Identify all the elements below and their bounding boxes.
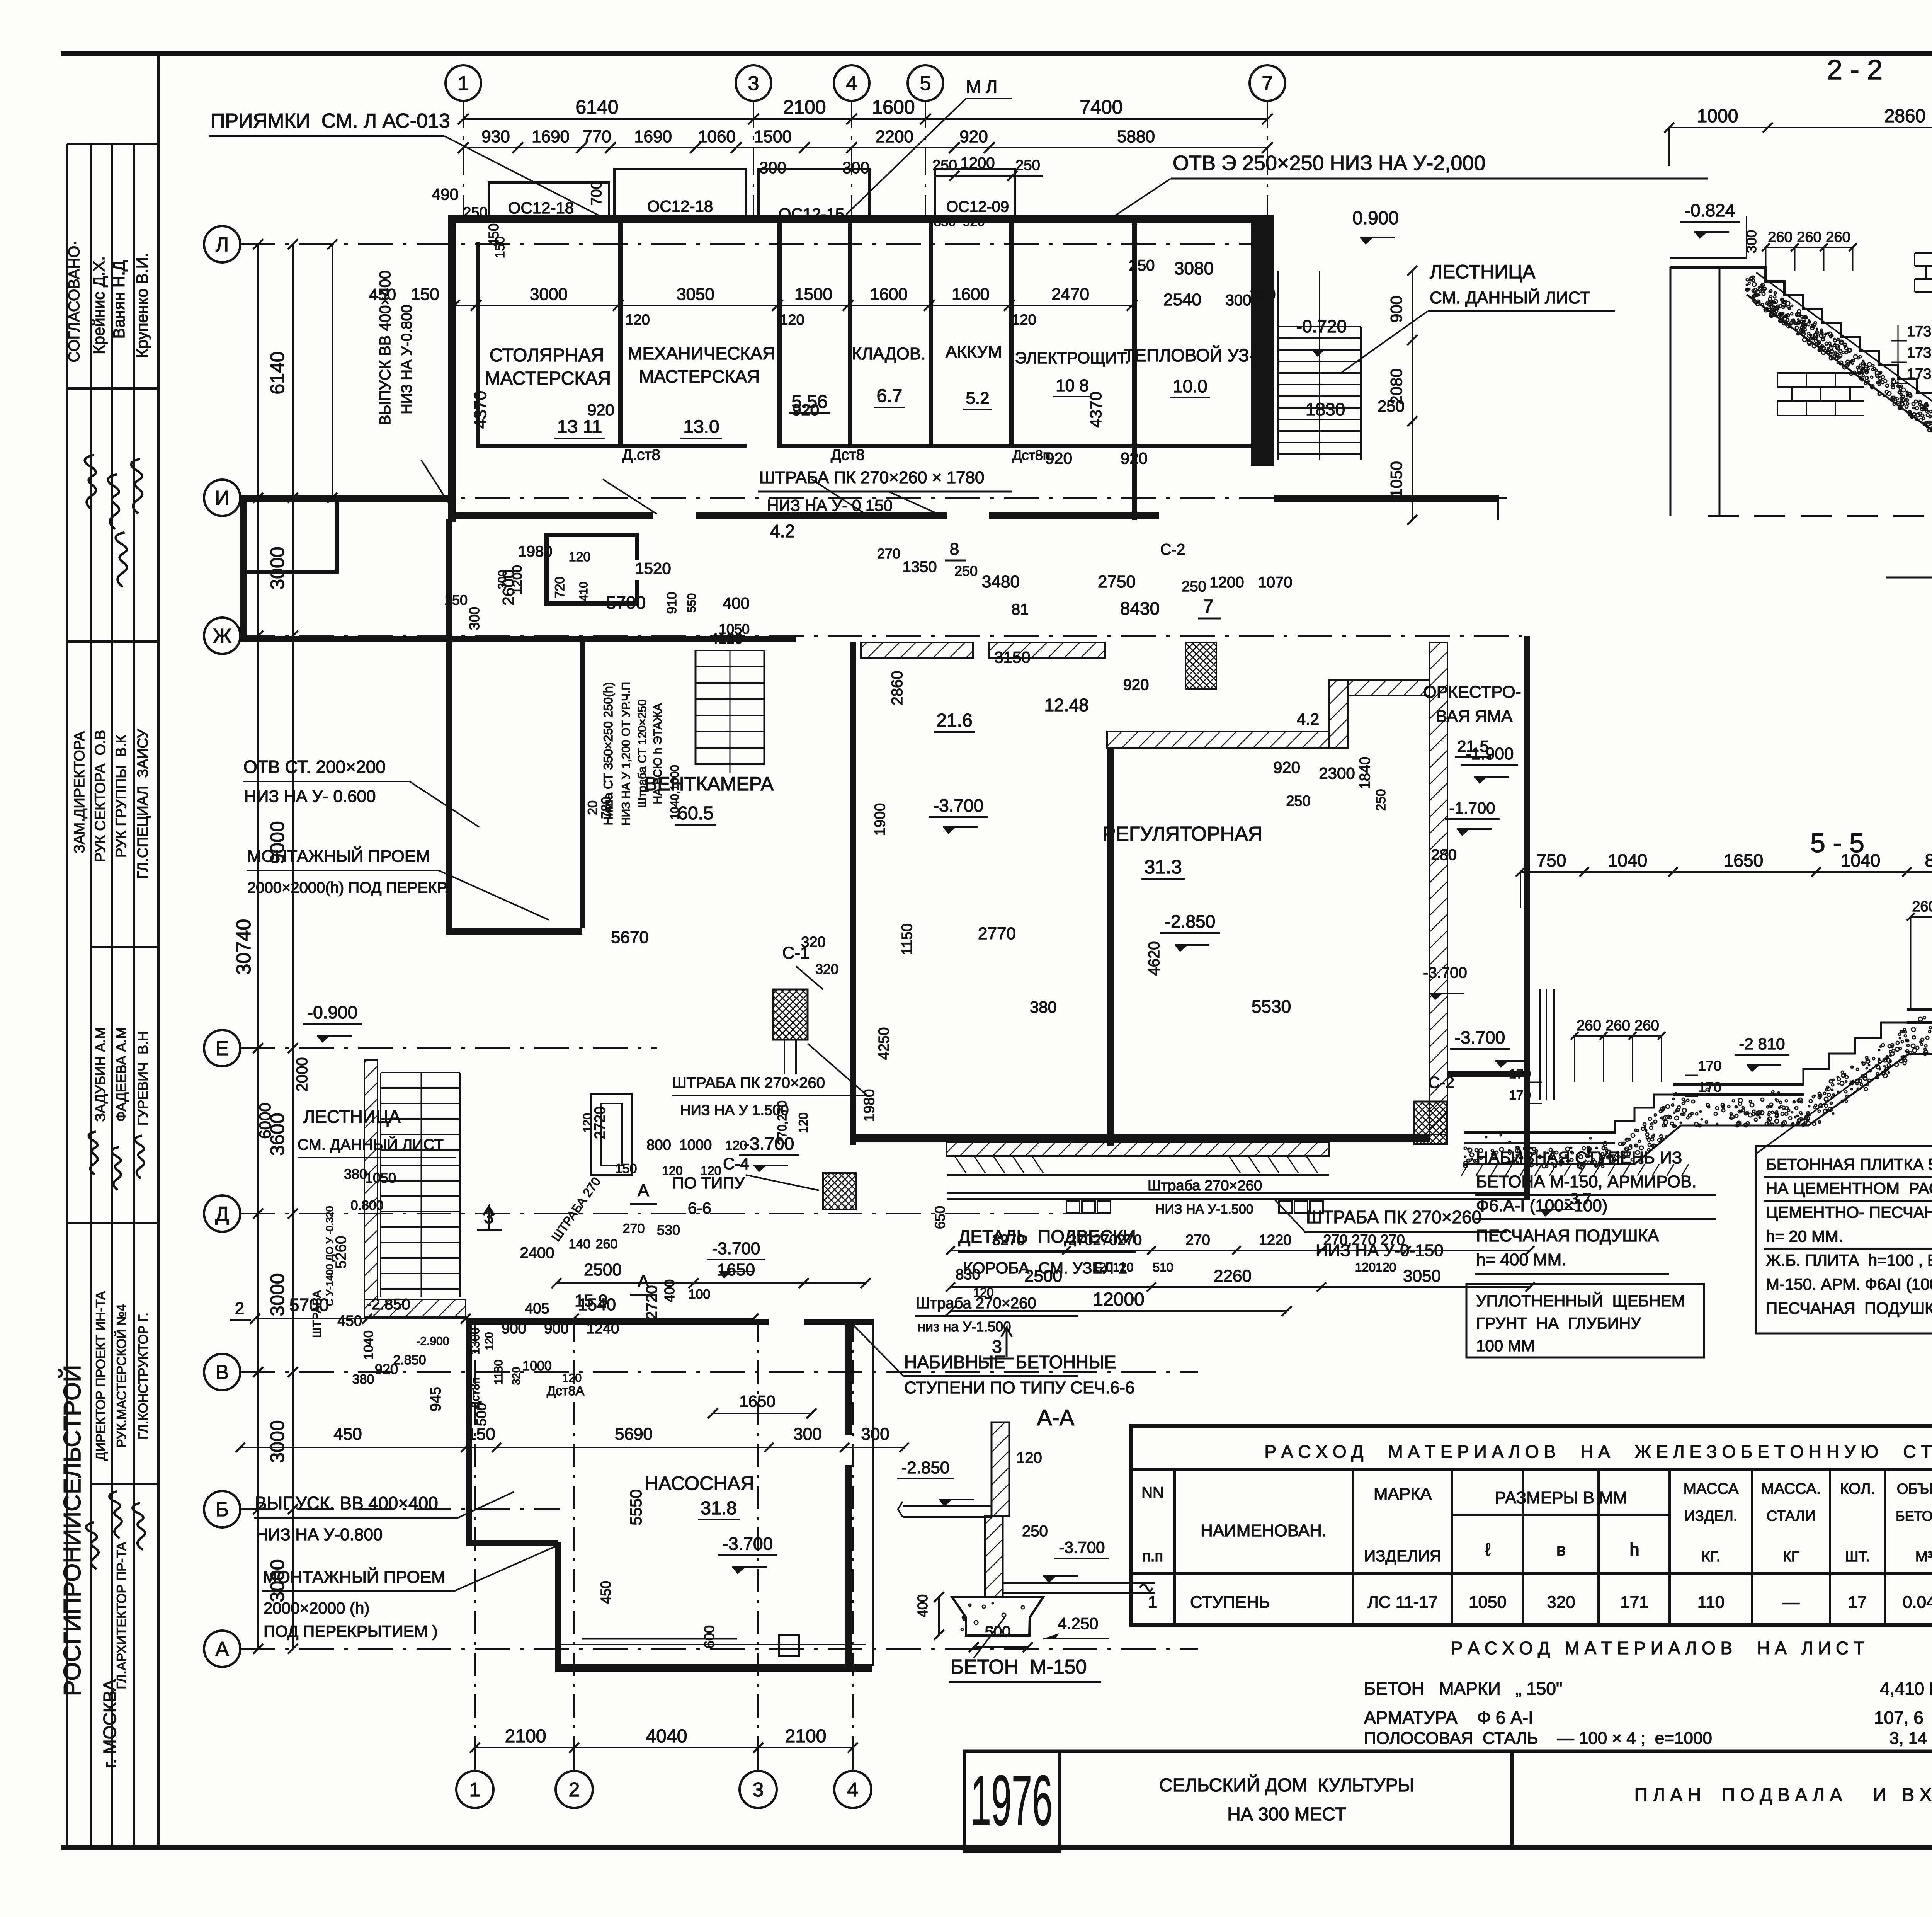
svg-text:В: В: [216, 1361, 229, 1384]
svg-text:2080: 2080: [1387, 368, 1405, 404]
stair top right treads: [1278, 326, 1361, 327]
stamp signatures lower: [83, 1522, 101, 1569]
plan outer top wall: [448, 215, 1273, 223]
axis circle 5 top: [908, 65, 943, 101]
svg-text:НАБИВНЫЕ БЕТОННЫЕ: НАБИВНЫЕ БЕТОННЫЕ: [904, 1352, 1116, 1372]
А-А left slab: [903, 1505, 992, 1507]
svg-text:Ванян Н.Д: Ванян Н.Д: [110, 260, 128, 339]
svg-text:120: 120: [1016, 1449, 1042, 1466]
svg-text:270: 270: [877, 546, 900, 562]
axis line 3 top: [753, 101, 754, 216]
svg-text:1690: 1690: [634, 127, 672, 146]
svg-text:1500: 1500: [794, 285, 832, 304]
axis line Е: [240, 1047, 657, 1049]
axis circle Л: [204, 226, 240, 262]
lower-left staircase treads: [381, 1072, 460, 1073]
svg-text:БЕТОН МАРКИ „ 150": БЕТОН МАРКИ „ 150": [1364, 1679, 1562, 1699]
svg-text:10.0: 10.0: [1173, 376, 1207, 396]
stamp right boundary full height: [157, 51, 160, 1847]
svg-text:2.850: 2.850: [393, 1353, 426, 1367]
svg-text:150: 150: [411, 285, 439, 304]
axis circle Б: [204, 1491, 240, 1527]
svg-text:КГ.: КГ.: [1702, 1549, 1721, 1565]
materials table outer border: [1131, 1426, 1932, 1625]
svg-text:920: 920: [587, 401, 614, 419]
svg-text:4.2: 4.2: [770, 521, 795, 541]
svg-text:1200: 1200: [1210, 574, 1244, 591]
svg-text:250: 250: [1286, 793, 1310, 809]
svg-text:МАССА.: МАССА.: [1761, 1480, 1821, 1497]
svg-text:300: 300: [861, 1425, 889, 1444]
svg-text:НИЗ НА У-0.800: НИЗ НА У-0.800: [399, 305, 415, 414]
2-2 brick patch lower: [1777, 372, 1864, 374]
svg-text:2100: 2100: [785, 1726, 827, 1747]
svg-text:120: 120: [569, 550, 591, 564]
svg-text:1040,1000: 1040,1000: [668, 765, 681, 820]
svg-text:М Л: М Л: [966, 77, 997, 97]
2-2 ground line: [1886, 577, 1932, 579]
svg-text:Дст8А: Дст8А: [547, 1384, 585, 1398]
svg-text:низ на У-1.500: низ на У-1.500: [918, 1319, 1011, 1335]
svg-text:280: 280: [1431, 846, 1457, 863]
axis circle 1 top: [446, 65, 481, 101]
svg-text:1600: 1600: [952, 285, 990, 304]
svg-text:А-А: А-А: [1037, 1405, 1075, 1430]
window well 1 outline: [489, 182, 609, 216]
stamp separator lines: [67, 387, 158, 390]
5-5 middle landing: [1673, 1083, 1804, 1086]
svg-text:2750: 2750: [1098, 572, 1136, 591]
title block cell borders: [1058, 1751, 1061, 1847]
5-5 dims 260 260 260 mid: [1575, 1035, 1662, 1037]
svg-text:П Л А Н П О Д В А Л А: П Л А Н П О Д В А Л А И В Х О Д Ы В П О …: [1634, 1785, 1932, 1805]
stair arrow line: [1319, 271, 1320, 460]
svg-text:Е: Е: [216, 1037, 229, 1060]
svg-text:3, 14 КГ.: 3, 14 КГ.: [1889, 1729, 1932, 1748]
svg-text:МАСТЕРСКАЯ: МАСТЕРСКАЯ: [485, 368, 611, 389]
svg-text:ПРИЯМКИ СМ. Л АС-013: ПРИЯМКИ СМ. Л АС-013: [211, 110, 450, 132]
C-shaped partition in left wing: [544, 533, 549, 606]
5-5 ground outline: [1464, 1054, 1932, 1164]
svg-text:800: 800: [1925, 850, 1932, 870]
svg-text:С-4: С-4: [723, 1154, 749, 1173]
svg-text:4.250: 4.250: [1058, 1614, 1098, 1633]
svg-text:1060: 1060: [698, 127, 736, 146]
svg-text:ОС12-18: ОС12-18: [508, 199, 574, 217]
svg-text:МАСТЕРСКАЯ: МАСТЕРСКАЯ: [639, 366, 760, 386]
svg-text:120: 120: [796, 1112, 810, 1133]
svg-text:НИЗ НА У-1.500: НИЗ НА У-1.500: [1155, 1202, 1253, 1217]
svg-text:СЕЛЬСКИЙ ДОМ КУЛЬТУРЫ: СЕЛЬСКИЙ ДОМ КУЛЬТУРЫ: [1159, 1774, 1414, 1796]
svg-text:770: 770: [583, 127, 611, 146]
svg-text:3: 3: [748, 72, 759, 95]
top dimension row 2: [463, 147, 1267, 148]
svg-text:4620: 4620: [1146, 941, 1163, 976]
svg-text:300: 300: [793, 1425, 821, 1444]
svg-text:320: 320: [815, 961, 838, 977]
svg-text:1: 1: [458, 72, 469, 95]
interior vertical dim line: [332, 244, 333, 498]
top dimension row 1: [463, 118, 1267, 120]
5-5 upper steps: [1803, 1023, 1907, 1084]
svg-text:81: 81: [1012, 601, 1029, 618]
svg-text:120120: 120120: [1355, 1260, 1396, 1274]
Ж axis long wall: [240, 636, 796, 642]
svg-text:1200: 1200: [510, 565, 525, 594]
svg-text:1976: 1976: [971, 1761, 1053, 1840]
svg-text:-3.700: -3.700: [723, 1534, 773, 1554]
svg-text:-1.700: -1.700: [1449, 799, 1495, 817]
axis stubs from plan to dim row: [474, 1319, 476, 1748]
svg-text:ГРУНТ НА ГЛУБИНУ: ГРУНТ НА ГЛУБИНУ: [1476, 1314, 1641, 1332]
svg-text:1040: 1040: [1841, 850, 1880, 870]
svg-text:С-2: С-2: [1160, 541, 1185, 558]
svg-text:Дст8п: Дст8п: [1012, 447, 1050, 463]
small rect дверь: [591, 1094, 632, 1175]
svg-text:170: 170: [1698, 1079, 1721, 1095]
svg-text:120: 120: [701, 1164, 721, 1178]
svg-text:260: 260: [1768, 229, 1792, 245]
svg-text:380: 380: [344, 1166, 367, 1182]
svg-text:300: 300: [466, 607, 482, 630]
svg-text:250: 250: [1182, 579, 1206, 595]
svg-text:2400: 2400: [520, 1245, 554, 1262]
svg-text:НИЗ НА У-0-150: НИЗ НА У-0-150: [1316, 1241, 1444, 1260]
svg-text:СОГЛАСОВАНО·: СОГЛАСОВАНО·: [66, 240, 83, 362]
А-А lower hatched wall: [985, 1516, 1003, 1597]
svg-text:НИЗ НА У 1,200 ОТ УР.Ч.П: НИЗ НА У 1,200 ОТ УР.Ч.П: [620, 682, 633, 826]
svg-text:СТУПЕНЬ: СТУПЕНЬ: [1190, 1593, 1270, 1612]
svg-text:5530: 5530: [1252, 996, 1291, 1016]
И axis left wing walls: [240, 495, 247, 642]
svg-text:АРМАТУРА Ф 6 А-I: АРМАТУРА Ф 6 А-I: [1364, 1708, 1533, 1728]
svg-text:2300: 2300: [1319, 764, 1355, 782]
svg-text:-2.850: -2.850: [1165, 911, 1215, 931]
svg-text:5700: 5700: [606, 592, 646, 613]
svg-text:1050: 1050: [1469, 1593, 1507, 1612]
svg-text:4040: 4040: [646, 1726, 687, 1747]
svg-text:3000: 3000: [530, 285, 568, 304]
svg-text:173: 173: [1907, 366, 1931, 382]
svg-text:ИЗДЕЛ.: ИЗДЕЛ.: [1685, 1508, 1738, 1524]
axis line 5 top: [925, 101, 926, 216]
svg-text:ПОД ПЕРЕКРЫТИЕМ ): ПОД ПЕРЕКРЫТИЕМ ): [264, 1622, 437, 1640]
Насосная left wall lower: [555, 1542, 561, 1672]
svg-text:КОРОБА СМ. УЗЕЛ 1: КОРОБА СМ. УЗЕЛ 1: [963, 1259, 1127, 1277]
svg-text:1050: 1050: [719, 621, 750, 637]
svg-text:МЕХАНИЧЕСКАЯ: МЕХАНИЧЕСКАЯ: [628, 343, 775, 363]
svg-text:270: 270: [1185, 1232, 1210, 1248]
stamp column vertical rules: [66, 144, 68, 1847]
dimension row inside top wing: [454, 305, 1132, 306]
svg-text:3000: 3000: [267, 546, 288, 589]
размеры subcolumns: [1522, 1515, 1524, 1625]
svg-text:500: 500: [473, 1403, 489, 1426]
svg-text:4250: 4250: [876, 1027, 892, 1060]
svg-text:12.48: 12.48: [1044, 695, 1088, 715]
svg-text:СТУПЕНИ ПО ТИПУ СЕЧ.6-6: СТУПЕНИ ПО ТИПУ СЕЧ.6-6: [904, 1378, 1134, 1397]
text block Уплотненный щебнем — boxed: [1466, 1284, 1704, 1357]
svg-text:5: 5: [920, 72, 931, 95]
axis circle И: [204, 480, 240, 516]
dim 1650 short: [713, 1413, 811, 1414]
axis circle 4 top: [834, 65, 869, 101]
bottom strip below регуляторная: [947, 1174, 1329, 1176]
svg-text:2260: 2260: [1214, 1267, 1252, 1285]
svg-text:1520: 1520: [635, 559, 671, 577]
svg-text:2720: 2720: [643, 1285, 660, 1320]
svg-text:405: 405: [525, 1301, 549, 1317]
svg-text:СТАЛИ: СТАЛИ: [1767, 1508, 1816, 1524]
2-2 left wall verticals: [1719, 267, 1721, 516]
axis line Л: [240, 243, 1275, 245]
svg-text:БЕТОННАЯ ПЛИТКА 500×300×140: БЕТОННАЯ ПЛИТКА 500×300×140: [1766, 1155, 1932, 1173]
svg-text:120: 120: [662, 1164, 682, 1178]
svg-text:1070: 1070: [1258, 574, 1293, 591]
svg-text:3480: 3480: [982, 572, 1020, 591]
А-А upper hatched wall: [992, 1422, 1009, 1516]
svg-text:Крупенко В.И.: Крупенко В.И.: [133, 252, 151, 358]
svg-text:А: А: [216, 1638, 229, 1660]
svg-text:550: 550: [685, 593, 698, 613]
axis line 7 top: [1267, 101, 1268, 216]
svg-text:510: 510: [1153, 1260, 1173, 1274]
right vertical dim chain of stair: [1412, 271, 1413, 520]
svg-text:ЛЕСТНИЦА: ЛЕСТНИЦА: [1430, 261, 1536, 283]
sheet outer frame bottom border: [61, 1845, 1932, 1850]
svg-text:920: 920: [792, 401, 819, 419]
dim 12000: [951, 1310, 1287, 1312]
svg-text:5260: 5260: [333, 1236, 349, 1269]
svg-text:30740: 30740: [233, 919, 255, 975]
svg-text:100 ММ: 100 ММ: [1476, 1336, 1535, 1355]
svg-text:2000×2000 (h): 2000×2000 (h): [264, 1599, 369, 1617]
inner wall lines workshop: [476, 242, 480, 447]
axis circle А: [204, 1631, 240, 1667]
svg-text:-0.720: -0.720: [1296, 316, 1347, 336]
svg-text:Крейнис Д.Х.: Крейнис Д.Х.: [90, 256, 108, 354]
axis circle Е: [204, 1030, 240, 1066]
svg-text:300: 300: [1226, 292, 1252, 309]
svg-text:2540: 2540: [1163, 290, 1201, 309]
svg-text:7: 7: [1262, 72, 1273, 95]
svg-text:270: 270: [623, 1221, 645, 1236]
svg-text:12000: 12000: [1093, 1289, 1144, 1310]
svg-text:3000: 3000: [267, 1420, 288, 1463]
svg-text:ОС12-18: ОС12-18: [647, 197, 713, 215]
svg-text:Дст8: Дст8: [831, 446, 865, 463]
svg-text:Ж.Б. ПЛИТА h=100 , БЕТОН: Ж.Б. ПЛИТА h=100 , БЕТОН: [1766, 1251, 1932, 1269]
text block Бетонная плитка — boxed: [1756, 1146, 1932, 1333]
svg-text:НА ЦЕМЕНТНОМ РАСТВОРЕ.: НА ЦЕМЕНТНОМ РАСТВОРЕ.: [1766, 1179, 1932, 1197]
axis line 1 top: [463, 101, 464, 216]
svg-text:5550: 5550: [627, 1489, 645, 1525]
vertical wall вентамера left: [580, 642, 585, 928]
svg-text:ГУРЕВИЧ В.Н: ГУРЕВИЧ В.Н: [135, 1031, 151, 1125]
heavy hatched wall right: [1430, 642, 1447, 1134]
svg-text:400: 400: [915, 1594, 930, 1617]
svg-text:5.2: 5.2: [966, 389, 989, 408]
axis line Ж: [240, 635, 1530, 637]
leader slashes for doors: [603, 479, 657, 514]
svg-text:ЗАМ.ДИРЕКТОРА: ЗАМ.ДИРЕКТОРА: [71, 731, 88, 853]
svg-text:1650: 1650: [1724, 850, 1763, 870]
2-2 stair underside: [1747, 295, 1932, 461]
svg-text:1600: 1600: [872, 96, 915, 118]
svg-text:4370: 4370: [471, 391, 490, 429]
svg-text:10 8: 10 8: [1056, 376, 1089, 395]
svg-text:15 9: 15 9: [575, 1291, 608, 1310]
регуляторная room walls: [1107, 748, 1114, 1146]
svg-text:3000: 3000: [267, 1273, 288, 1316]
2-2 top dimension line: [1669, 127, 1932, 128]
staircase bottom hatched wall: [364, 1299, 466, 1317]
svg-text:ШТРАБА ПК 270×260 × 1780: ШТРАБА ПК 270×260 × 1780: [759, 468, 984, 487]
svg-text:h= 20 ММ.: h= 20 ММ.: [1766, 1227, 1843, 1245]
svg-text:1900: 1900: [872, 803, 888, 836]
svg-text:4,410 М³: 4,410 М³: [1880, 1679, 1932, 1699]
svg-text:260: 260: [1577, 1018, 1601, 1034]
Насосная wing top wall: [466, 1319, 769, 1325]
Насосная jog wall: [466, 1540, 558, 1546]
svg-text:930: 930: [481, 127, 510, 146]
svg-text:2: 2: [569, 1779, 580, 1801]
svg-text:в: в: [1556, 1539, 1566, 1559]
svg-text:-3.700: -3.700: [712, 1239, 760, 1258]
svg-text:РАЗМЕРЫ В ММ: РАЗМЕРЫ В ММ: [1495, 1488, 1627, 1507]
svg-text:0.041: 0.041: [1903, 1593, 1932, 1612]
svg-text:260: 260: [1634, 1018, 1659, 1034]
svg-text:РОСГИПРОНИИСЕЛЬСТРОЙ: РОСГИПРОНИИСЕЛЬСТРОЙ: [59, 1365, 86, 1696]
svg-text:ФАДЕЕВА А.М: ФАДЕЕВА А.М: [113, 1027, 129, 1122]
svg-text:ГЛ.АРХИТЕКТОР ПР-ТА: ГЛ.АРХИТЕКТОР ПР-ТА: [114, 1542, 129, 1689]
svg-text:260: 260: [596, 1237, 618, 1251]
svg-text:БЕТОН М-150: БЕТОН М-150: [951, 1656, 1087, 1678]
svg-text:0.900: 0.900: [1352, 208, 1399, 228]
svg-text:5700: 5700: [289, 1295, 329, 1315]
plan right wall block of top wing: [1251, 215, 1274, 466]
svg-text:780: 780: [599, 797, 614, 819]
Насосная bottom notch: [779, 1635, 799, 1656]
svg-text:ЛС 11-17: ЛС 11-17: [1367, 1593, 1438, 1612]
svg-text:РУК.МАСТЕРСКОЙ №4: РУК.МАСТЕРСКОЙ №4: [114, 1304, 129, 1448]
А-А right slab: [1003, 1582, 1155, 1584]
axis circle 3 top: [736, 65, 771, 101]
svg-text:НИЗ НА У- 0.600: НИЗ НА У- 0.600: [244, 787, 376, 806]
5-5 upper porch slab: [1907, 1008, 1932, 1011]
2-2 dims 260 over steps: [1766, 247, 1853, 248]
svg-text:1500: 1500: [754, 127, 792, 146]
svg-text:5880: 5880: [1117, 127, 1155, 146]
svg-text:ЗАДУБИН А.М: ЗАДУБИН А.М: [92, 1027, 108, 1122]
dim row at В axis: [240, 1447, 904, 1448]
svg-text:п.п: п.п: [1142, 1548, 1163, 1565]
svg-text:Р А С Х О Д М А Т Е Р И А: Р А С Х О Д М А Т Е Р И А Л О В Н А Ж Е …: [1264, 1442, 1932, 1462]
5-5 dims 260 260 upper: [1911, 916, 1932, 918]
Насосная inner bottom line: [582, 1638, 737, 1640]
svg-text:120: 120: [725, 1138, 747, 1153]
svg-text:АККУМ: АККУМ: [946, 342, 1002, 361]
stamp signatures upper: [77, 454, 102, 510]
axis circle Ж: [204, 618, 240, 654]
svg-text:-3.700: -3.700: [1059, 1538, 1105, 1556]
window well 3 outline: [759, 169, 869, 216]
svg-text:250: 250: [1129, 257, 1155, 274]
svg-text:8: 8: [950, 540, 959, 558]
svg-text:8430: 8430: [1120, 598, 1160, 618]
axis line Д: [240, 1213, 1121, 1214]
svg-text:120: 120: [1012, 312, 1036, 328]
hatched top wall of регуляторная: [1107, 732, 1329, 748]
svg-text:6-6: 6-6: [688, 1199, 711, 1217]
svg-text:МОНТАЖНЫЙ ПРОЕМ: МОНТАЖНЫЙ ПРОЕМ: [247, 846, 430, 866]
svg-text:НИЗ НА У 1.500: НИЗ НА У 1.500: [680, 1102, 789, 1119]
svg-text:4: 4: [846, 72, 857, 95]
svg-text:-2 810: -2 810: [1739, 1035, 1785, 1053]
svg-text:3: 3: [753, 1779, 764, 1801]
axis line 4 top: [851, 101, 852, 216]
svg-text:-0.824: -0.824: [1685, 200, 1735, 220]
svg-text:7: 7: [1203, 596, 1214, 617]
svg-text:720: 720: [553, 577, 567, 599]
dim rows lower corridor: [951, 1250, 1530, 1251]
left wall below Ж axis: [446, 519, 452, 934]
svg-text:4370: 4370: [1087, 392, 1105, 427]
plan outer left wall: [448, 215, 456, 522]
svg-text:ЛЕСТНИЦА: ЛЕСТНИЦА: [303, 1107, 401, 1127]
svg-text:700: 700: [588, 181, 605, 205]
svg-text:ГЛ.СПЕЦИАЛ ЗАИСУ: ГЛ.СПЕЦИАЛ ЗАИСУ: [135, 729, 151, 878]
svg-text:5690: 5690: [615, 1425, 653, 1444]
svg-text:945: 945: [428, 1387, 444, 1411]
svg-text:140: 140: [569, 1237, 591, 1251]
svg-text:СТОЛЯРНАЯ: СТОЛЯРНАЯ: [490, 345, 604, 366]
Насосная right wall: [845, 1319, 852, 1435]
svg-text:h: h: [1629, 1539, 1639, 1559]
svg-text:2500: 2500: [584, 1260, 622, 1279]
svg-text:450: 450: [333, 1425, 362, 1444]
svg-text:Б: Б: [216, 1498, 229, 1521]
svg-text:1650: 1650: [717, 1260, 755, 1279]
svg-text:ПЕСЧАНАЯ ПОДУШКА h=400ММ: ПЕСЧАНАЯ ПОДУШКА h=400ММ: [1766, 1299, 1932, 1317]
svg-text:7400: 7400: [1080, 96, 1122, 118]
svg-text:НА 300 МЕСТ: НА 300 МЕСТ: [1227, 1804, 1346, 1825]
svg-text:ПЕСЧАНАЯ ПОДУШКА: ПЕСЧАНАЯ ПОДУШКА: [1476, 1226, 1659, 1245]
svg-text:СМ. ДАННЫЙ ЛИСТ: СМ. ДАННЫЙ ЛИСТ: [298, 1136, 444, 1153]
svg-text:300: 300: [496, 570, 509, 589]
svg-text:2000×2000(h) ПОД ПЕРЕКР.: 2000×2000(h) ПОД ПЕРЕКР.: [247, 879, 449, 896]
corridor wall below top wing: [448, 512, 653, 519]
svg-text:КОЛ.: КОЛ.: [1840, 1480, 1875, 1497]
svg-text:31.8: 31.8: [701, 1498, 736, 1519]
C-2 hatch square bottom right: [1414, 1102, 1447, 1144]
svg-text:1350: 1350: [903, 558, 937, 575]
svg-text:2860: 2860: [889, 671, 906, 705]
leader to window well: [444, 136, 601, 216]
svg-text:Л: Л: [216, 233, 229, 256]
svg-text:1840: 1840: [1357, 757, 1373, 790]
svg-text:БЕТОНА: БЕТОНА: [1896, 1508, 1932, 1524]
svg-text:С-2: С-2: [1428, 1073, 1454, 1091]
svg-text:1050: 1050: [365, 1170, 396, 1186]
svg-text:Штраба 270×260: Штраба 270×260: [1148, 1178, 1262, 1194]
svg-text:МАССА: МАССА: [1684, 1480, 1739, 1497]
svg-text:Ф6.А-I (100×100): Ф6.А-I (100×100): [1476, 1196, 1607, 1215]
svg-text:600: 600: [701, 1625, 717, 1648]
svg-text:Д.ст8: Д.ст8: [622, 446, 660, 463]
svg-text:НИЗ НА У- 0 150: НИЗ НА У- 0 150: [767, 496, 893, 514]
svg-text:920: 920: [1121, 449, 1148, 467]
